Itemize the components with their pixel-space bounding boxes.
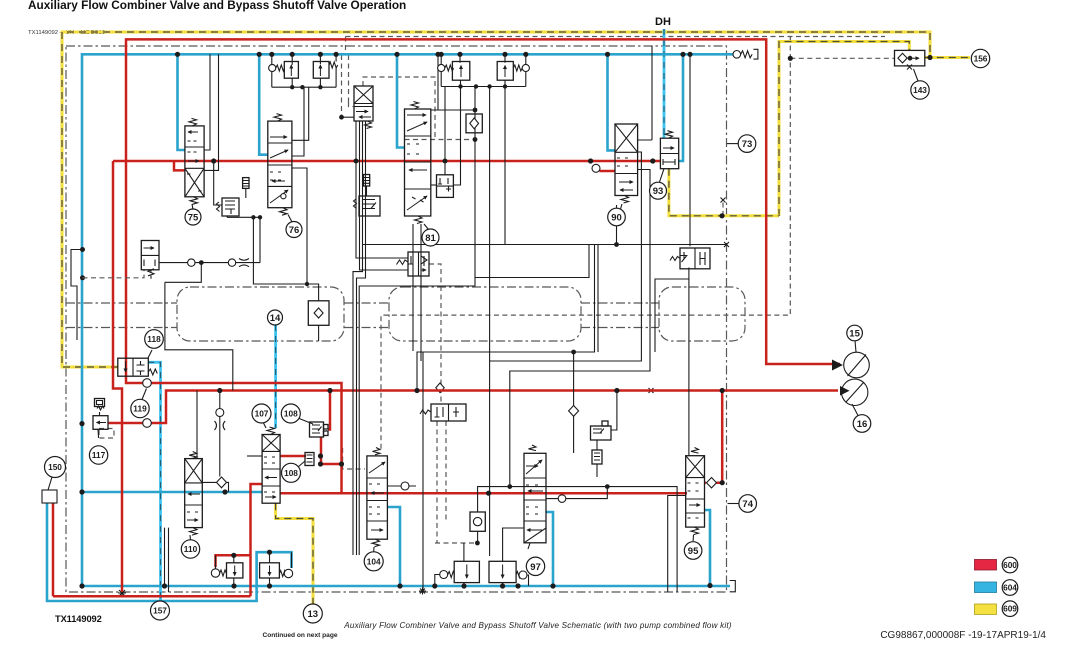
red valve 107 outlet to bottom (251, 484, 263, 596)
svg-text:150: 150 (48, 462, 62, 472)
label 604 (1002, 580, 1018, 596)
red bottom return line (53, 595, 251, 598)
star mark on bottom border (118, 589, 126, 597)
svg-text:157: 157 (153, 606, 167, 616)
blue drop to valve 75 (178, 54, 185, 150)
svg-text:108: 108 (284, 409, 298, 419)
dash-dot stub mid upper (344, 302, 389, 304)
leader 119 (142, 389, 147, 400)
wire valve97 right orifice (546, 487, 607, 499)
label 76 (286, 222, 302, 238)
leader pump 16 label (852, 404, 858, 416)
orifice circle on 219 riser (216, 409, 224, 417)
dash-dot stub left upper (66, 302, 177, 304)
svg-text:13: 13 (308, 609, 319, 620)
cyan line valve 118 to circle 157 (148, 362, 160, 600)
red from plug 150 (52, 503, 55, 596)
manifold racetrack 1 (177, 287, 344, 341)
wire valve90 drop to pilot line (616, 205, 618, 245)
dashed link to small box (83, 270, 145, 278)
wire diamond links (202, 482, 228, 492)
cyan DH line (663, 29, 666, 138)
label 108a (281, 404, 300, 423)
check diamond on VB dashed (436, 383, 444, 393)
relief pair bottom-left first unit (211, 563, 243, 578)
dashed box near valve 117 (99, 429, 114, 439)
wire small box outlet with orifices (159, 217, 260, 262)
wire step c riser upper (489, 87, 491, 362)
wire valve110 bottom drops (165, 528, 169, 592)
wire left bracket component (71, 250, 83, 341)
wire valve97 lower distribution line (478, 487, 677, 592)
blue node dot branch (79, 489, 84, 494)
red solenoid 108 branch (328, 391, 330, 430)
label 600 (1002, 557, 1018, 573)
wire relief2 bottoms (441, 72, 526, 87)
tank line end bracket (730, 581, 736, 592)
dashed link VA to VB (429, 264, 441, 404)
filter tiny box (243, 178, 249, 198)
dash-dot system border (66, 46, 727, 592)
check ball in valve 90 jog (592, 164, 600, 172)
wire 680 branch left (655, 279, 689, 352)
svg-text:74: 74 (742, 499, 753, 510)
valve 93 (660, 131, 679, 182)
valve 118 (118, 350, 158, 376)
wire regen valve drop to valve95 (688, 268, 690, 456)
pump 15 (832, 352, 869, 378)
node dots relief2 (458, 84, 507, 142)
wire step c (490, 152, 642, 493)
label 110 (181, 540, 199, 558)
label 14 (268, 310, 283, 325)
pilot box right of valve 81 (437, 175, 454, 198)
node dots pilot 75 (251, 215, 309, 286)
orifice circle right of valve104 (401, 482, 409, 490)
svg-text:600: 600 (1003, 560, 1017, 570)
dashed pilot 2 to shutoff valve (349, 55, 355, 107)
yellow line valve143 to 156 (925, 56, 970, 59)
svg-text:Auxiliary Flow Combiner Valve: Auxiliary Flow Combiner Valve and Bypass… (343, 621, 732, 630)
svg-text:76: 76 (289, 225, 300, 236)
pilot valve VA (397, 252, 430, 276)
wire diamond drop to valve 97 (573, 352, 575, 453)
yellow pilot riser to valve 143 (779, 42, 909, 217)
label 75 (185, 209, 201, 225)
wire pilot cluster bottom 75 (227, 216, 319, 301)
label 157 (151, 601, 170, 620)
svg-text:97: 97 (530, 562, 541, 573)
relief pair mid-bottom left unit (440, 561, 480, 582)
leader 108b (298, 461, 305, 467)
blue drop to valve 93 (679, 54, 683, 161)
svg-text:TX1149092: TX1149092 (55, 614, 102, 624)
svg-text:90: 90 (611, 213, 622, 224)
red left drop with jog (113, 161, 122, 592)
leader to circle 74 (728, 503, 739, 505)
star mark on bottom border 2 (419, 588, 426, 595)
label 119 (131, 399, 149, 417)
label 13 (303, 604, 322, 623)
solenoid 108a (310, 422, 329, 437)
wire blue rail to valve 81 (431, 54, 475, 110)
node dot shutoff pilot (339, 115, 344, 120)
node dots on blue vertical (80, 247, 85, 252)
node dots relief1 (290, 85, 323, 89)
blue node dots on top rail (175, 52, 693, 57)
wire relief2 drops (359, 87, 505, 556)
wire step c lower extension (489, 493, 491, 556)
blue outer return line (47, 503, 292, 601)
dashed stub near valve 104 (343, 448, 365, 469)
blue drop to valve 81 (397, 54, 405, 147)
svg-text:604: 604 (1003, 583, 1017, 593)
red main supply top loop to pump 15 (126, 39, 840, 493)
label 104 (364, 552, 383, 571)
x mark on dashed stub near yellow (721, 198, 726, 203)
valve 75 (185, 118, 204, 209)
orifice circle on red line 117 (143, 419, 152, 428)
yellow from valve 107 to circle 13 (276, 503, 313, 603)
svg-text:Auxiliary Flow Combiner Valve: Auxiliary Flow Combiner Valve and Bypass… (28, 0, 406, 12)
svg-text:73: 73 (742, 139, 753, 150)
red node dots (211, 158, 725, 558)
shutoff valve top middle (354, 86, 373, 129)
wire shutoff valve drops (353, 121, 408, 555)
blue drop to valve 76 (259, 54, 268, 154)
svg-text:Continued on next page: Continued on next page (262, 632, 337, 639)
dashed drop from pilot valve VB (437, 421, 446, 543)
svg-text:95: 95 (688, 546, 699, 557)
blue node dot valve117 (79, 421, 84, 426)
svg-text:117: 117 (92, 450, 106, 460)
leader to circle 73 (727, 143, 738, 145)
svg-text:93: 93 (653, 186, 664, 197)
orifice circle right of valve97 (558, 495, 566, 503)
wire valve75 right loop (204, 54, 218, 170)
filter box valve 81 pilot (364, 175, 370, 197)
svg-text:75: 75 (188, 213, 199, 224)
pilot reducing valve 75 cluster (217, 198, 240, 216)
label 73 (738, 135, 756, 153)
svg-text:DH: DH (655, 16, 671, 28)
relief pair bottom-left second unit (260, 563, 293, 578)
red solenoid 108 lower links (280, 437, 341, 464)
svg-text:81: 81 (425, 233, 436, 244)
wire relief B drain to pilot box (444, 87, 446, 175)
red jog into valve 75 (174, 161, 185, 170)
small pilot box left mid (141, 241, 159, 279)
label 150 (45, 457, 66, 478)
red main supply to pump 16 (108, 391, 838, 424)
check diamond above valve 97 (569, 406, 579, 417)
valve 117 manual reducing (93, 399, 108, 439)
leader pump 15 label (855, 341, 856, 353)
label 74 (739, 495, 757, 513)
legend blue swatch (975, 582, 997, 593)
relief valve pair A left: ball spring box (269, 62, 299, 79)
node dot step a (571, 350, 576, 355)
wire valve 107 left port stub (247, 455, 262, 457)
wire valve90 right links (638, 46, 652, 141)
label 93 (650, 182, 667, 199)
svg-text:104: 104 (367, 556, 381, 566)
wire solenoid cluster right (611, 391, 617, 431)
red work line mid (113, 160, 660, 163)
blue node dot near valve110 (222, 489, 227, 494)
svg-text:143: 143 (913, 85, 927, 95)
dash-dot stub right lower (581, 327, 659, 329)
wire step a (417, 245, 595, 391)
wire valve 110 top feed (196, 391, 198, 459)
relief pair mid-bottom right unit (489, 561, 527, 582)
check box on pilot path (308, 301, 329, 341)
plug 150 (42, 477, 57, 503)
red relief feed bottom left (216, 555, 251, 567)
blue branch to valve 107 (82, 491, 262, 494)
svg-text:14: 14 (270, 313, 281, 324)
blue main rail left and top (82, 54, 733, 586)
legend yellow swatch (975, 604, 997, 615)
wire dot to valve port (342, 116, 355, 118)
dash-dot stub right upper (581, 302, 659, 304)
dashed pilot from shutoff valve to valve 81 (346, 37, 476, 140)
valve 110 (185, 452, 203, 541)
x mark on right border lower (724, 242, 729, 247)
red combiner line to valve 95 (280, 492, 687, 495)
svg-text:110: 110 (184, 544, 198, 554)
svg-text:119: 119 (133, 404, 147, 414)
label 609 (1002, 601, 1018, 617)
check diamond valve 110 (217, 477, 227, 488)
dashed line above shutoff valve going right (346, 36, 886, 38)
cyan line from circle 14 to valve 107 (274, 325, 277, 428)
x mark on red line center (649, 388, 654, 393)
wire riser 598 (597, 245, 599, 353)
valve 104 (367, 448, 388, 552)
svg-text:118: 118 (147, 334, 161, 344)
pilot valve VB (420, 404, 466, 421)
valve 97 (524, 445, 546, 549)
wire relief2 feeds (441, 54, 526, 64)
wire drop from step to tank border (422, 352, 424, 592)
solenoid cluster mid right (591, 421, 612, 477)
yellow border top and left to valve 118 (62, 32, 930, 367)
label 118 (145, 330, 164, 349)
label 117 (89, 446, 107, 464)
blue tank rail bottom (82, 585, 730, 588)
check valve 143 (895, 50, 925, 81)
svg-text:107: 107 (255, 409, 269, 419)
valve 90 (615, 124, 638, 209)
check box on pilot path upper (466, 114, 482, 133)
wire relief1 feeds (272, 54, 336, 65)
blue node dots on tank rail (79, 583, 712, 589)
svg-text:156: 156 (974, 54, 988, 64)
relief valve pair B left: ball spring box (438, 62, 470, 81)
valve 95 bypass shutoff (686, 448, 705, 542)
wire valve76 right drop (292, 168, 307, 284)
wire pilot drop valve75 (214, 161, 222, 205)
dashed tank link bottom (435, 542, 477, 544)
manifold racetrack 3 (659, 287, 745, 341)
relief valve pair A right: box spring ball (313, 62, 337, 79)
svg-text:16: 16 (857, 419, 868, 430)
label 81 (422, 229, 439, 246)
wire step d (510, 170, 650, 487)
dashed stub above yellow junction (722, 200, 724, 216)
check diamond valve 95 (707, 478, 717, 488)
label 95 (684, 542, 702, 560)
manifold racetrack 2 (389, 287, 581, 341)
valve 81 (405, 102, 431, 231)
label 15 (847, 325, 863, 341)
pump 16 (840, 379, 868, 405)
wire relief4 bottoms (234, 578, 270, 586)
svg-text:108: 108 (284, 468, 298, 478)
wire relief4 tops (216, 552, 292, 568)
red valve95 check branch (705, 391, 723, 483)
node dots on 486 line (507, 484, 512, 489)
dash-dot stub left lower (66, 327, 177, 329)
dashed branch to valve143 (790, 57, 894, 59)
relief valve pair B right: box spring ball (497, 62, 529, 81)
orifice circle on red line 118 (143, 379, 152, 388)
blue node dot relief (267, 550, 272, 555)
wire red branch down to diamond (219, 391, 221, 477)
label 16 (853, 415, 871, 433)
valve 76 (268, 114, 292, 222)
wire valve95 left drops (668, 496, 686, 593)
svg-text:CG98867,000008F -19-17APR19-1/: CG98867,000008F -19-17APR19-1/4 (880, 630, 1046, 641)
yellow from valve 93 bottom (669, 169, 779, 216)
svg-text:609: 609 (1003, 604, 1017, 614)
wire valve104 right orifice (387, 485, 416, 487)
label 90 (608, 208, 626, 226)
wire relief1 bottoms (272, 68, 336, 87)
solenoid 108b (305, 453, 314, 466)
wire component 680 feed (689, 54, 691, 246)
red jog into valve 90 (591, 161, 615, 171)
legend red swatch (975, 560, 997, 571)
label 107 (252, 404, 271, 423)
wire valve 81 small valve link (431, 184, 437, 186)
node yellow 156 junction (927, 55, 932, 60)
blue rail end check: ball spring bracket (733, 49, 758, 59)
wire riser 589 (475, 245, 589, 278)
label 97 (526, 557, 544, 575)
node yellow junction (719, 213, 724, 218)
label 108b (282, 463, 301, 482)
blue drop to valve 90 (608, 54, 616, 150)
restrictor marks on 219 riser (215, 421, 226, 430)
wire pilot line 244 (362, 244, 726, 246)
leader 108a (298, 418, 313, 424)
dash-dot stub mid lower (344, 327, 389, 329)
wire valve81 bottom drops (413, 224, 421, 361)
dashed pilot from check valve 143 down and across (381, 37, 790, 450)
svg-text:15: 15 (849, 329, 860, 340)
dashed pilot from blue rail to shutoff valve port (341, 55, 343, 117)
blue valve 97 to tank (545, 512, 553, 586)
node dashed tank link (475, 541, 480, 546)
check component box between 104 and 97 (470, 512, 485, 543)
wire relief1 to valve76 (292, 87, 309, 156)
valve 107 combiner (262, 422, 280, 503)
pilot reducing valve 76 cluster (354, 196, 381, 216)
node dashed junction (788, 56, 793, 61)
pilot component 680 (670, 248, 710, 269)
blue valve 95 to tank (705, 510, 711, 586)
wire relief3 bottoms (435, 575, 529, 587)
label 143 (911, 81, 929, 99)
label 156 (971, 49, 989, 67)
blue valve 104 to tank (387, 507, 400, 586)
wire relief3 tops (464, 528, 524, 561)
